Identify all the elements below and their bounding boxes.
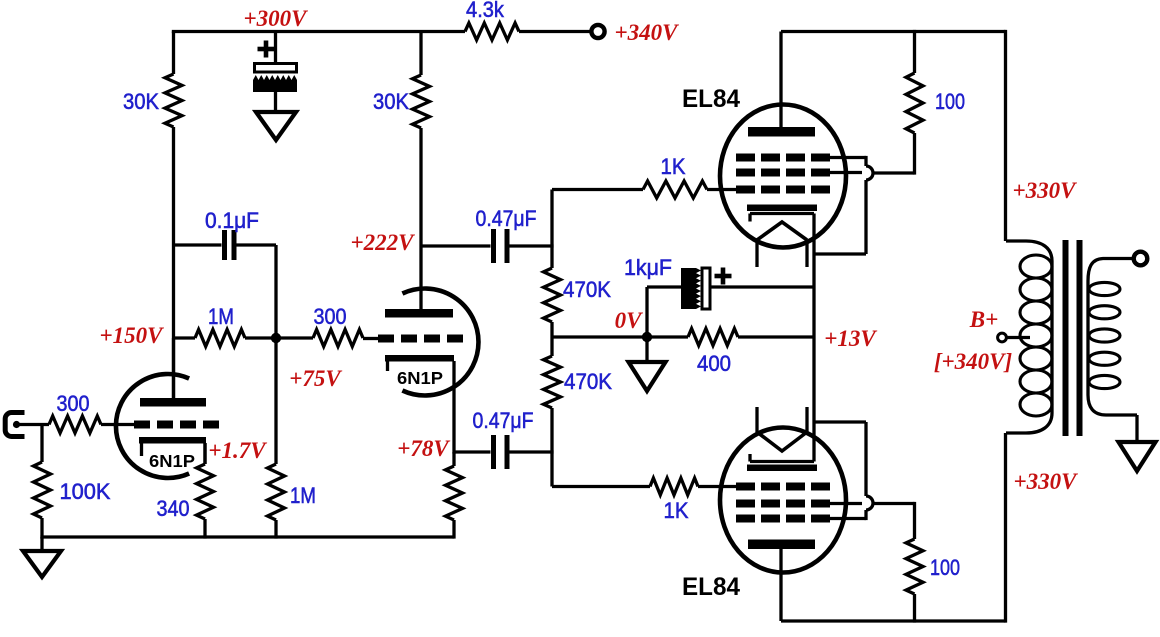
svg-text:30K: 30K (123, 90, 159, 114)
svg-text:[+340V]: [+340V] (934, 349, 1013, 374)
svg-text:+75V: +75V (289, 366, 342, 391)
svg-text:4.3k: 4.3k (466, 0, 504, 22)
svg-text:400: 400 (697, 352, 731, 376)
svg-text:+340V: +340V (615, 20, 680, 45)
svg-text:+13V: +13V (824, 326, 877, 351)
svg-text:100: 100 (930, 556, 960, 580)
svg-text:30K: 30K (373, 90, 409, 114)
svg-text:1K: 1K (661, 155, 686, 179)
svg-text:+330V: +330V (1014, 469, 1079, 494)
svg-text:EL84: EL84 (682, 573, 740, 601)
svg-text:0.47μF: 0.47μF (473, 409, 534, 433)
svg-text:0.1μF: 0.1μF (205, 209, 259, 234)
svg-text:B+: B+ (969, 307, 998, 332)
svg-text:300: 300 (314, 305, 347, 329)
svg-text:0.47μF: 0.47μF (476, 207, 537, 231)
svg-text:0V: 0V (615, 308, 644, 333)
svg-text:470K: 470K (563, 277, 611, 302)
svg-text:+330V: +330V (1013, 178, 1078, 203)
svg-text:1kμF: 1kμF (624, 255, 672, 280)
svg-text:+222V: +222V (351, 230, 416, 255)
svg-text:340: 340 (157, 497, 190, 521)
svg-text:EL84: EL84 (682, 85, 740, 113)
svg-text:+300V: +300V (244, 6, 309, 31)
svg-text:470K: 470K (564, 369, 612, 394)
svg-text:1K: 1K (664, 499, 689, 523)
svg-text:6N1P: 6N1P (397, 368, 443, 388)
svg-text:+78V: +78V (397, 436, 450, 461)
svg-text:6N1P: 6N1P (149, 451, 195, 471)
svg-text:300: 300 (57, 392, 90, 416)
svg-text:1M: 1M (290, 485, 316, 509)
svg-text:+1.7V: +1.7V (208, 438, 267, 463)
svg-text:+150V: +150V (100, 323, 165, 348)
svg-text:1M: 1M (208, 306, 234, 330)
svg-text:100K: 100K (60, 479, 111, 504)
svg-text:100: 100 (935, 90, 965, 114)
